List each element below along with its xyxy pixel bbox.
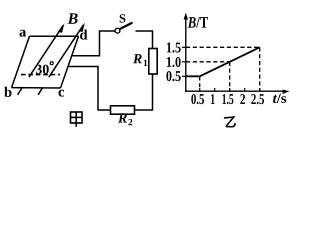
x value 2.5 [251,94,264,104]
wire: R1 bottom down to bottom wire [135,74,153,110]
wire: coil top lead horizontal [72,31,116,56]
y tick 1.0 [182,61,186,63]
coil bottom edge bc [12,87,61,89]
x value 1.5 [222,94,233,104]
wire: switch lever [120,23,133,29]
label b [4,87,11,97]
label d [80,29,87,39]
B-t curve [186,47,260,76]
label B field [67,13,77,24]
dashed horizontal B=1.5 [186,46,260,48]
switch S pivot circle [115,28,120,33]
label B/T [188,17,208,28]
B arrow 2 head [79,23,86,33]
label t/s [273,94,286,103]
B arrow 2 shaft upper [49,25,84,77]
coil plane dashed line [21,74,60,76]
label 30 degrees [36,65,49,74]
graph x-axis arrowhead [283,90,290,94]
dashed vertical t=0.5 [199,76,201,91]
caption yi (乙) drawn as path [224,117,236,127]
B arrow 1 tail below coil [18,88,23,95]
label c [59,90,65,97]
x value 2 [240,94,245,104]
coil top edge ad [30,35,79,37]
x value 1 [211,94,215,104]
graph y-axis [185,18,187,93]
B arrow 2 tail below coil [38,88,43,95]
y tick 1.5 [182,46,186,48]
x value 0.5 [191,94,204,104]
wire: switch right to corner and down to R1 [136,31,153,49]
y tick 0.5 [182,75,186,77]
resistor R2 box [111,106,135,114]
B arrow 1 shaft upper [29,26,63,78]
dashed horizontal B=1.0 [186,61,230,63]
dashed vertical t=2.5 [259,47,261,91]
label R1 [133,54,147,66]
y value 1.0 [167,57,181,67]
label a [19,30,26,37]
y value 1.5 [167,43,181,53]
coil left edge ab [12,36,30,87]
label S [120,14,126,22]
dashed vertical t=1.5 [229,62,231,91]
B arrow 1 head [58,23,65,33]
graph y-axis arrowhead [184,13,188,20]
coil right edge dc [61,36,79,88]
y value 0.5 [166,71,180,81]
resistor R1 box [149,49,157,75]
caption jia (甲) drawn as path [71,112,83,127]
x ticks [200,88,260,91]
label R2 [118,113,132,125]
graph x-axis [185,90,285,92]
circuit wires [68,23,152,110]
wire: bottom wire left of R2 and up riser [68,67,110,111]
